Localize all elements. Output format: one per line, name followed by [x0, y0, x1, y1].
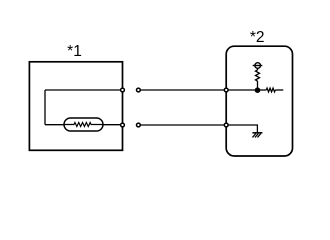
vertical resistor zigzag	[256, 70, 260, 81]
terminal circle box1 pin top	[121, 88, 125, 92]
sensor circle symbol	[255, 63, 261, 69]
wire harness bottom (y=125)	[140, 124, 226, 126]
wire resistor to junction	[257, 81, 259, 90]
terminal circle box2 pin top	[224, 88, 228, 92]
ground hatch 1	[253, 134, 256, 138]
heater element resistor zigzag	[65, 123, 103, 127]
component box *2 (rounded)	[226, 46, 292, 156]
ground hatch 2	[255, 134, 258, 138]
ground hatch 3	[258, 134, 261, 138]
connector circle wire bottom	[137, 123, 141, 127]
connector circle wire top	[137, 88, 141, 92]
wire inner left vertical	[44, 90, 46, 125]
horizontal resistor lead left	[258, 89, 267, 91]
terminal circle box1 pin bottom	[121, 123, 125, 127]
svg-text:*1: *1	[67, 43, 82, 60]
wire top inner (node to terminal)	[45, 89, 123, 91]
component box *1	[29, 62, 122, 151]
sensor circle bar	[253, 65, 263, 67]
wire inner bottom left segment	[45, 124, 64, 126]
wire inner bottom right segment	[103, 124, 123, 126]
svg-text:*2: *2	[250, 29, 265, 46]
heater element outline (stadium)	[64, 118, 103, 131]
wire inside box2 top (to junction)	[226, 89, 258, 91]
junction node dot	[255, 87, 261, 93]
terminal circle box2 pin bottom	[224, 123, 228, 127]
wire harness top (y=90)	[140, 89, 226, 91]
horizontal resistor lead right	[275, 89, 283, 91]
horizontal resistor zigzag	[266, 88, 275, 92]
wire circle to resistor	[257, 68, 259, 70]
ground symbol bar	[252, 132, 262, 134]
wire inside box2 bottom (to ground)	[226, 125, 257, 132]
